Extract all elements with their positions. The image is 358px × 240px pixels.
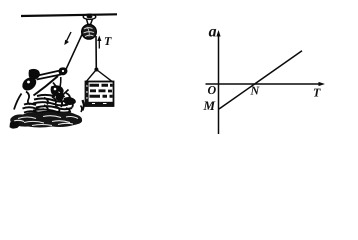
graph line M-N — [219, 51, 302, 109]
ceiling — [21, 14, 117, 16]
axis T (horizontal) — [206, 83, 322, 85]
crate bottom band — [86, 102, 114, 106]
axis a (vertical) — [218, 33, 220, 134]
crate planks — [90, 84, 113, 87]
person arms — [36, 71, 62, 80]
foot — [64, 97, 76, 105]
rope tail — [59, 77, 61, 95]
sling knot — [94, 68, 98, 72]
rope to person (diagonal) — [65, 35, 82, 72]
extra body scribbles — [33, 97, 71, 113]
pulley U0 — [82, 24, 97, 39]
crate W — [86, 82, 114, 107]
label T (left figure) — [105, 37, 112, 45]
scribbles right patch — [66, 93, 73, 113]
person head — [29, 69, 40, 80]
crate corner mark — [83, 100, 85, 111]
person torso — [22, 77, 36, 90]
arrow on rope (pull direction) — [66, 32, 71, 42]
vertical rope — [95, 36, 97, 69]
label a — [209, 29, 216, 37]
ground left blob — [10, 121, 20, 128]
pulley mount — [83, 14, 96, 19]
label T (graph) — [314, 89, 321, 97]
rope coil blob — [56, 94, 64, 101]
person back support stroke — [14, 94, 22, 110]
leg scribbles — [33, 95, 72, 109]
ground mound — [10, 112, 82, 128]
person hands — [59, 67, 68, 75]
label M — [203, 101, 215, 110]
knee cluster — [51, 85, 64, 96]
arrow T (tension) — [98, 39, 100, 49]
person thigh — [34, 76, 59, 96]
sling ropes — [86, 70, 113, 82]
label N — [250, 87, 259, 95]
crate left post — [85, 82, 89, 106]
person shin — [53, 83, 69, 98]
label O — [208, 86, 216, 94]
seat scribbles left — [23, 104, 49, 114]
